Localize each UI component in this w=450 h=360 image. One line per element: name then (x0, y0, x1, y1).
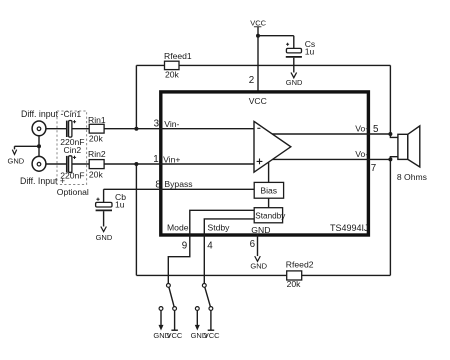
svg-text:VCC: VCC (167, 331, 183, 340)
resistor Rin2 20k (88, 149, 106, 179)
svg-text:Vo+: Vo+ (355, 123, 370, 133)
wire Bias to op-amp (268, 162, 270, 182)
svg-text:8: 8 (155, 180, 161, 191)
switch SW2 Stdby select (195, 284, 212, 311)
wire Rfeed1 feedback net y=65 (136, 65, 390, 134)
svg-text:Bypass: Bypass (164, 179, 192, 189)
wire Bias to Standby (268, 198, 270, 208)
svg-text:VCC: VCC (250, 18, 266, 27)
wire pin 4 Stdby net (204, 219, 254, 284)
block Standby (254, 208, 286, 223)
svg-text:220nF: 220nF (60, 170, 84, 180)
svg-text:Rfeed2: Rfeed2 (286, 260, 314, 270)
svg-text:Rin2: Rin2 (88, 149, 106, 159)
svg-text:4: 4 (207, 241, 213, 252)
svg-text:Vin-: Vin- (164, 119, 179, 129)
wire connector link (15, 135, 40, 157)
wire pin 9 Mode net (168, 210, 254, 283)
wire Bypass net pin 8 (104, 189, 255, 202)
node junction dot Vo+/feedback (388, 132, 392, 136)
svg-text:Cin1: Cin1 (64, 109, 82, 119)
capacitor Cin2 220nF (60, 145, 84, 181)
speaker LS1 8 Ohms (397, 126, 427, 182)
svg-text:20k: 20k (287, 279, 302, 289)
svg-text:Rfeed1: Rfeed1 (164, 51, 192, 61)
wire Vin- input net y=128.7 (46, 128, 254, 130)
svg-text:GND: GND (286, 78, 303, 87)
capacitor Cb 1u (96, 192, 127, 210)
svg-text:20k: 20k (89, 133, 104, 143)
node junction dot between connectors (37, 144, 41, 148)
resistor Rfeed2 20k (286, 260, 314, 289)
svg-text:3: 3 (154, 119, 160, 130)
node junction dot Vo-/feedback (388, 157, 392, 161)
svg-text:GND: GND (8, 156, 25, 165)
node VCC bar SW2 (208, 329, 215, 331)
op-amp plus input mark (257, 159, 263, 165)
svg-text:Standby: Standby (255, 211, 286, 221)
svg-text:Cin2: Cin2 (64, 145, 82, 155)
node junction dot Rfeed2/Vin+ (134, 162, 138, 166)
svg-text:Stdby: Stdby (208, 223, 231, 233)
svg-text:VCC: VCC (249, 96, 267, 106)
wire Rfeed2 feedback net y=275.4 (136, 164, 390, 275)
svg-text:TS4994IJ: TS4994IJ (330, 223, 369, 233)
svg-text:5: 5 (373, 124, 379, 135)
ground GND under Cb (96, 227, 113, 243)
svg-text:Diff. Input +: Diff. Input + (20, 176, 65, 186)
svg-text:7: 7 (371, 163, 376, 174)
capacitor Cs 1u (286, 39, 315, 57)
capacitor Cin1 220nF (60, 109, 84, 147)
wire Cb bottom to ground (103, 211, 105, 226)
node junction dot VCC/Cs (256, 34, 260, 38)
connector J2 Diff. Input + (20, 156, 65, 186)
IC U1 TS4994IJ package outline (161, 92, 369, 235)
node VCC bar SW1 (171, 329, 178, 331)
op-amp U1 triangle (254, 121, 291, 172)
svg-text:Optional: Optional (57, 187, 89, 197)
resistor Rin1 20k (88, 115, 106, 143)
node junction dot Rfeed1/Vin- (134, 127, 138, 131)
ground arrow SW2 (195, 325, 200, 331)
svg-text:Vin+: Vin+ (163, 154, 180, 164)
resistor Rfeed1 20k (164, 51, 192, 80)
svg-text:2: 2 (249, 75, 254, 86)
svg-text:6: 6 (250, 239, 256, 250)
svg-text:GND: GND (250, 261, 267, 270)
svg-text:1: 1 (153, 154, 158, 165)
svg-text:1u: 1u (115, 199, 125, 209)
svg-text:1u: 1u (305, 46, 315, 56)
svg-text:Rin1: Rin1 (88, 115, 106, 125)
ground GND under pin 6 (250, 256, 267, 270)
svg-text:GND: GND (96, 233, 113, 242)
wire Cs bottom to ground (293, 58, 295, 73)
switch SW1 Mode select (159, 284, 176, 311)
svg-text:Vo-: Vo- (355, 149, 368, 159)
svg-text:VCC: VCC (204, 331, 220, 340)
svg-text:Bias: Bias (260, 186, 277, 196)
svg-text:Mode: Mode (167, 223, 189, 233)
connector J1 Diff. input - (21, 109, 63, 136)
wire Vin+ input net y=164 (46, 163, 254, 165)
wire pin 6 GND net (257, 234, 259, 256)
wire SW2 VCC leg (210, 310, 212, 329)
svg-text:GND: GND (251, 225, 270, 235)
node VCC supply symbol (top) (250, 18, 266, 27)
svg-text:8 Ohms: 8 Ohms (397, 172, 427, 182)
ground arrow SW1 (159, 325, 164, 331)
svg-text:20k: 20k (165, 70, 180, 80)
wire Vo+ output net y=134 (272, 134, 398, 137)
ground GND under Cs (286, 73, 303, 87)
wire SW1 VCC leg (174, 310, 176, 329)
wire SW2 GND leg (196, 310, 198, 325)
svg-text:20k: 20k (89, 169, 104, 179)
op-amp minus input mark (257, 127, 260, 129)
wire VCC net to pin 2 and Cs (258, 27, 294, 92)
wire SW1 GND leg (160, 310, 162, 325)
wire Vo- output net y=159.4 (273, 157, 398, 276)
block Bias (254, 182, 283, 198)
optional input caps dashed box (57, 111, 87, 185)
ground GND at inputs (8, 150, 25, 166)
svg-text:9: 9 (182, 241, 187, 252)
